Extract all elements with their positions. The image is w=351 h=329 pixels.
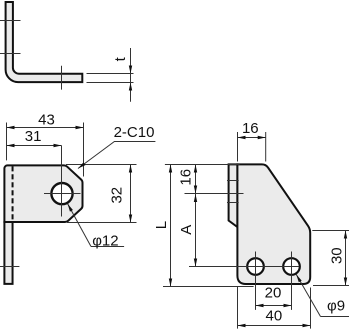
svg-text:40: 40 bbox=[266, 307, 283, 324]
svg-text:φ9: φ9 bbox=[327, 298, 345, 315]
svg-text:A: A bbox=[178, 225, 195, 235]
svg-text:φ12: φ12 bbox=[92, 232, 118, 249]
svg-text:2-C10: 2-C10 bbox=[114, 124, 155, 141]
svg-text:L: L bbox=[153, 221, 170, 229]
svg-text:32: 32 bbox=[109, 187, 126, 204]
svg-text:31: 31 bbox=[25, 128, 42, 145]
svg-text:20: 20 bbox=[265, 284, 282, 301]
svg-text:16: 16 bbox=[242, 120, 259, 137]
svg-text:16: 16 bbox=[178, 169, 195, 186]
svg-text:30: 30 bbox=[328, 247, 345, 264]
svg-text:43: 43 bbox=[38, 112, 55, 129]
